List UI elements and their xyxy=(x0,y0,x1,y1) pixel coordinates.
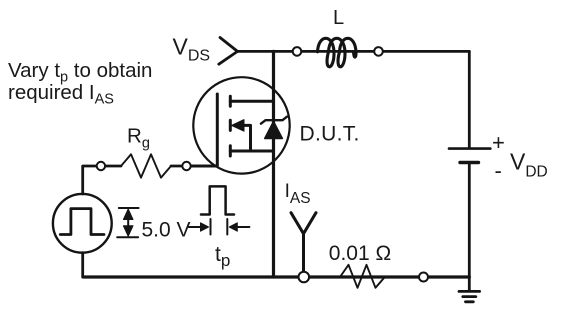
transistor Q1 D.U.T. MOSFET xyxy=(191,94,274,166)
wire battery minus to bottom rail xyxy=(468,164,471,277)
inductor L coil xyxy=(318,38,357,67)
node N1 inductor left terminal xyxy=(293,47,302,56)
diode D1 body zener xyxy=(261,117,287,139)
current probe IAS (Y symbol) xyxy=(291,213,316,272)
wire right vertical (top corner down to battery + plate) xyxy=(468,51,471,147)
DUT circle xyxy=(193,77,289,173)
svg-text:+: + xyxy=(492,130,505,155)
node N4 probe connection on rail xyxy=(299,272,310,283)
wire drain bus (top rail down to bottom rail) xyxy=(272,51,275,277)
dimension arrow 5.0 V amplitude xyxy=(117,208,138,237)
gate lead and electrode xyxy=(191,94,218,166)
probe VDS arrow xyxy=(219,38,238,65)
ground xyxy=(459,277,480,302)
wire generator to bottom rail xyxy=(81,253,84,277)
svg-text:-: - xyxy=(495,158,502,183)
pulse waveform tp xyxy=(201,186,234,214)
dimension arrows tp width xyxy=(189,219,250,235)
svg-text:0.01 Ω: 0.01 Ω xyxy=(329,242,391,265)
drain lead xyxy=(230,100,273,103)
resistor R2 0.01 ohm xyxy=(340,265,385,288)
channel segments xyxy=(229,96,232,106)
body tie with arrow xyxy=(241,125,251,151)
node N3 sense resistor right terminal xyxy=(419,273,428,282)
resistor Rg xyxy=(121,154,171,177)
pulse generator V1 xyxy=(53,194,112,253)
wire bottom rail xyxy=(83,275,469,278)
svg-text:D.U.T.: D.U.T. xyxy=(300,123,360,146)
source lead xyxy=(230,150,273,153)
wire top rail (VDS tip to top-right corner) xyxy=(238,50,470,53)
node N5 Rg left terminal xyxy=(97,162,105,170)
svg-text:L: L xyxy=(333,7,344,29)
svg-text:5.0 V: 5.0 V xyxy=(142,219,191,242)
node N2 inductor right terminal xyxy=(374,47,383,56)
wire Rg right segment to gate xyxy=(171,165,191,168)
wire Rg left segment to generator xyxy=(83,166,121,194)
battery VDD xyxy=(449,149,490,163)
node N6 Rg right terminal xyxy=(182,162,190,170)
